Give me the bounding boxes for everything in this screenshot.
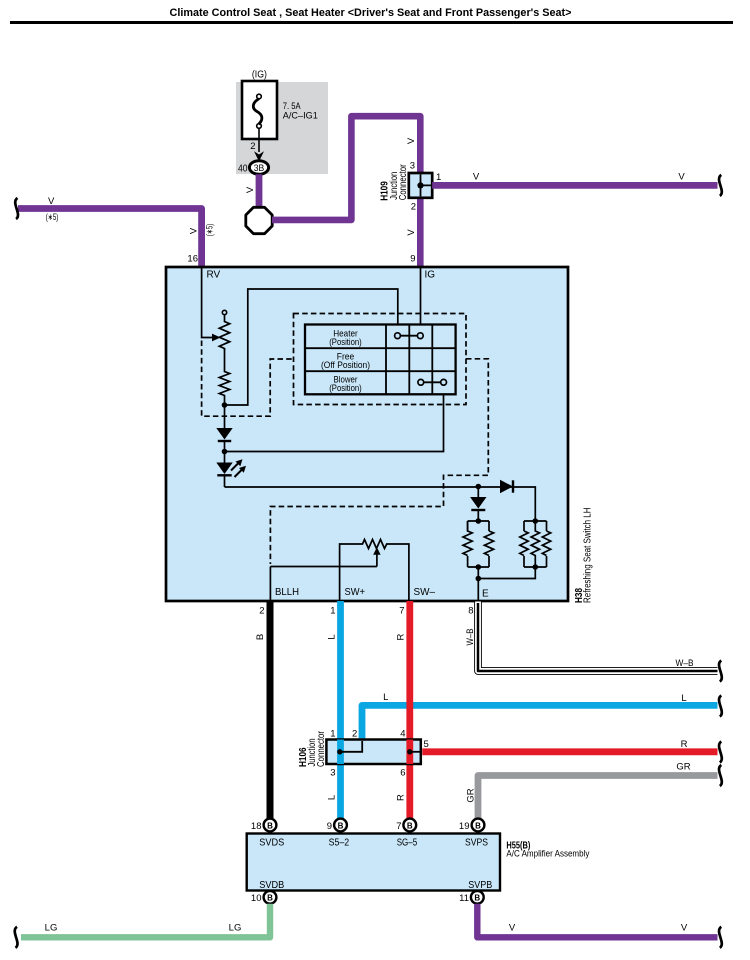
dashed linkage switch to lower <box>270 359 488 564</box>
continuation squiggle left V <box>15 198 18 219</box>
junction node D2 <box>476 484 482 490</box>
labels R wire <box>396 633 688 801</box>
wire RV internal <box>202 267 221 341</box>
wire V fuse down to junction <box>256 174 263 210</box>
svg-text:L: L <box>383 692 388 703</box>
svg-text:7: 7 <box>399 606 404 617</box>
svg-text:(Position): (Position) <box>329 383 362 393</box>
svg-text:2: 2 <box>352 729 357 740</box>
wire W-B from E <box>478 601 718 671</box>
wire right bank to E node <box>478 567 535 579</box>
junction node <box>222 402 228 408</box>
svg-text:LG: LG <box>45 923 58 934</box>
svg-text:B: B <box>255 634 266 640</box>
resistor lower <box>219 349 229 406</box>
label V <box>245 186 256 193</box>
svg-text:SVPS: SVPS <box>465 837 488 848</box>
wire L SW+ to amplifier <box>337 601 344 819</box>
label V above H109 <box>406 137 417 144</box>
svg-text:SVDS: SVDS <box>259 837 284 848</box>
wire R H106 to right edge <box>422 748 717 755</box>
svg-text:Climate Control Seat , Seat He: Climate Control Seat , Seat Heater <Driv… <box>170 7 572 19</box>
svg-text:2: 2 <box>250 141 255 152</box>
svg-text:SG–5: SG–5 <box>397 837 418 848</box>
wire LED to right section <box>225 487 536 521</box>
wire IG internal to switch <box>420 267 422 325</box>
svg-text:6: 6 <box>400 768 405 779</box>
svg-text:V: V <box>473 172 480 183</box>
title <box>10 7 733 24</box>
wires through H106 <box>341 740 410 765</box>
label V below H109 <box>406 229 417 236</box>
svg-text:A/C–IG1: A/C–IG1 <box>283 111 318 122</box>
resistor trio right <box>520 518 551 570</box>
junction node LED <box>222 449 228 455</box>
terminal labels bottom of switch box <box>275 587 489 600</box>
svg-text:9: 9 <box>327 821 332 832</box>
H109 pin labels <box>410 161 442 213</box>
wire V from left edge to pin 16 <box>18 209 202 267</box>
svg-text:V: V <box>48 196 55 207</box>
amplifier bottom pin numbers <box>251 893 469 904</box>
label H38 Refreshing Seat Switch LH <box>574 508 594 604</box>
svg-text:R: R <box>396 794 407 801</box>
amplifier pin circles top <box>264 819 485 832</box>
svg-text:R: R <box>681 739 688 750</box>
pin 16 <box>187 254 198 265</box>
label V (*5) vertical at pin 16 <box>189 224 215 237</box>
label H109 Junction Connector <box>380 164 409 201</box>
terminal labels top <box>207 270 436 281</box>
pin numbers below switch box <box>259 606 473 617</box>
svg-text:19: 19 <box>459 821 470 832</box>
switch position table <box>305 325 456 395</box>
svg-text:L: L <box>327 795 338 800</box>
svg-text:L: L <box>327 634 338 639</box>
svg-text:11: 11 <box>459 893 469 904</box>
svg-text:V: V <box>678 172 685 183</box>
svg-text:(∗5): (∗5) <box>46 212 59 222</box>
junction connector H106 <box>326 740 420 765</box>
continuation squiggle W-B <box>719 661 722 682</box>
svg-text:(IG): (IG) <box>252 70 267 81</box>
svg-text:B: B <box>475 821 481 830</box>
svg-text:3: 3 <box>330 768 335 779</box>
wire V octagon to H109 and down to IG pin 9 <box>272 116 420 266</box>
continuation squiggle L <box>719 696 722 717</box>
svg-text:B: B <box>267 894 273 903</box>
svg-text:2: 2 <box>259 606 264 617</box>
diode D2 <box>470 487 486 522</box>
labels W-B <box>465 629 694 670</box>
potentiometer upper <box>219 310 229 350</box>
svg-text:2: 2 <box>411 202 416 213</box>
svg-text:3: 3 <box>410 161 415 172</box>
svg-text:BLLH: BLLH <box>275 587 299 598</box>
resistor pair left <box>463 518 494 570</box>
svg-text:(Position): (Position) <box>329 337 362 347</box>
svg-text:10: 10 <box>251 893 262 904</box>
labels V on top right wire <box>473 172 686 183</box>
label H55(B) <box>506 840 589 859</box>
svg-text:LG: LG <box>229 923 242 934</box>
svg-text:7: 7 <box>396 821 401 832</box>
svg-text:4: 4 <box>400 729 405 740</box>
wire R SW- to amplifier <box>406 601 413 819</box>
label (IG) <box>252 70 267 81</box>
svg-text:18: 18 <box>251 821 262 832</box>
svg-text:V: V <box>406 229 417 236</box>
svg-text:A/C Amplifier Assembly: A/C Amplifier Assembly <box>506 848 589 859</box>
svg-text:(Off Position): (Off Position) <box>321 360 370 370</box>
svg-text:1: 1 <box>330 606 335 617</box>
pin 9 <box>410 254 415 265</box>
svg-text:GR: GR <box>676 762 690 773</box>
H106 internal bus <box>337 741 421 755</box>
svg-text:GR: GR <box>466 788 477 802</box>
svg-text:Connector: Connector <box>316 730 327 767</box>
junction octagon <box>246 207 272 233</box>
svg-text:V: V <box>245 186 256 193</box>
svg-text:SW+: SW+ <box>345 587 366 598</box>
wire B BLLH to amplifier <box>267 601 274 819</box>
continuation squiggle R <box>719 742 722 763</box>
LED indicator <box>216 452 246 488</box>
amplifier top pin numbers <box>251 821 470 832</box>
wire node to blower contact <box>225 395 444 452</box>
continuation squiggle right V top <box>719 175 722 196</box>
A/C amplifier assembly H55(B) <box>247 834 500 891</box>
H106 pin labels <box>330 729 429 779</box>
svg-text:1: 1 <box>330 729 335 740</box>
wire V H109 to right edge <box>432 182 717 189</box>
wire to E node <box>476 567 482 601</box>
svg-text:W–B: W–B <box>465 629 476 646</box>
switch contacts blower <box>418 379 447 385</box>
labels L wire <box>327 634 687 800</box>
wire GR to right edge <box>478 776 718 819</box>
svg-text:V: V <box>509 923 516 934</box>
junction connector H109 <box>409 173 432 198</box>
svg-text:40: 40 <box>238 163 248 174</box>
svg-text:8: 8 <box>468 606 473 617</box>
fuse block background <box>236 82 328 174</box>
fuse 7.5A A/C-IG1 <box>242 81 318 139</box>
svg-text:SVDB: SVDB <box>259 880 284 891</box>
svg-text:RV: RV <box>207 270 221 281</box>
label V (*5) horizontal <box>46 196 59 222</box>
wire node to switch feed <box>225 289 398 405</box>
svg-text:Refreshing Seat Switch LH: Refreshing Seat Switch LH <box>583 508 594 604</box>
connector 3B pin 40 <box>238 161 269 175</box>
svg-text:L: L <box>681 693 686 704</box>
labels GR <box>466 762 691 803</box>
svg-text:V: V <box>406 137 417 144</box>
labels V bottom <box>509 923 688 934</box>
wire fuse to connector 3B <box>254 128 264 162</box>
svg-text:R: R <box>396 633 407 640</box>
svg-text:B: B <box>338 821 344 830</box>
diode D1 <box>216 405 232 452</box>
continuation squiggle GR <box>719 765 722 786</box>
svg-text:9: 9 <box>410 254 415 265</box>
dashed switch enclosure <box>294 314 467 405</box>
svg-text:B: B <box>267 821 273 830</box>
labels LG <box>45 923 242 934</box>
label B <box>255 634 266 640</box>
svg-text:16: 16 <box>187 254 198 265</box>
wire V SVPB to right edge <box>477 904 717 938</box>
continuation squiggle LG <box>15 927 18 948</box>
svg-text:V: V <box>189 227 200 234</box>
svg-text:IG: IG <box>425 270 436 281</box>
svg-text:Connector: Connector <box>398 164 409 201</box>
switch contacts heater <box>395 333 424 339</box>
svg-text:(∗5): (∗5) <box>205 224 215 237</box>
wire LG SVDB to left edge <box>21 904 270 938</box>
diode D3 <box>500 480 513 493</box>
svg-text:5: 5 <box>424 739 429 750</box>
potentiometer SW <box>270 540 409 602</box>
svg-text:B: B <box>474 894 480 903</box>
switch box H38 <box>166 267 568 601</box>
svg-text:W–B: W–B <box>676 658 694 669</box>
svg-text:SW–: SW– <box>414 587 436 598</box>
svg-text:V: V <box>681 923 688 934</box>
svg-text:B: B <box>407 821 413 830</box>
amplifier pin circles bottom <box>264 891 484 904</box>
svg-text:3B: 3B <box>254 163 265 173</box>
svg-text:1: 1 <box>436 172 441 183</box>
pin 2 of fuse <box>250 141 255 152</box>
svg-text:SVPB: SVPB <box>468 880 492 891</box>
continuation squiggle right V bottom <box>719 927 722 948</box>
wire L branch to right edge <box>362 705 718 738</box>
svg-text:E: E <box>482 589 489 600</box>
svg-text:S5–2: S5–2 <box>329 837 350 848</box>
dashed linkage pot to switch <box>202 341 294 417</box>
label H106 Junction Connector <box>298 730 327 767</box>
